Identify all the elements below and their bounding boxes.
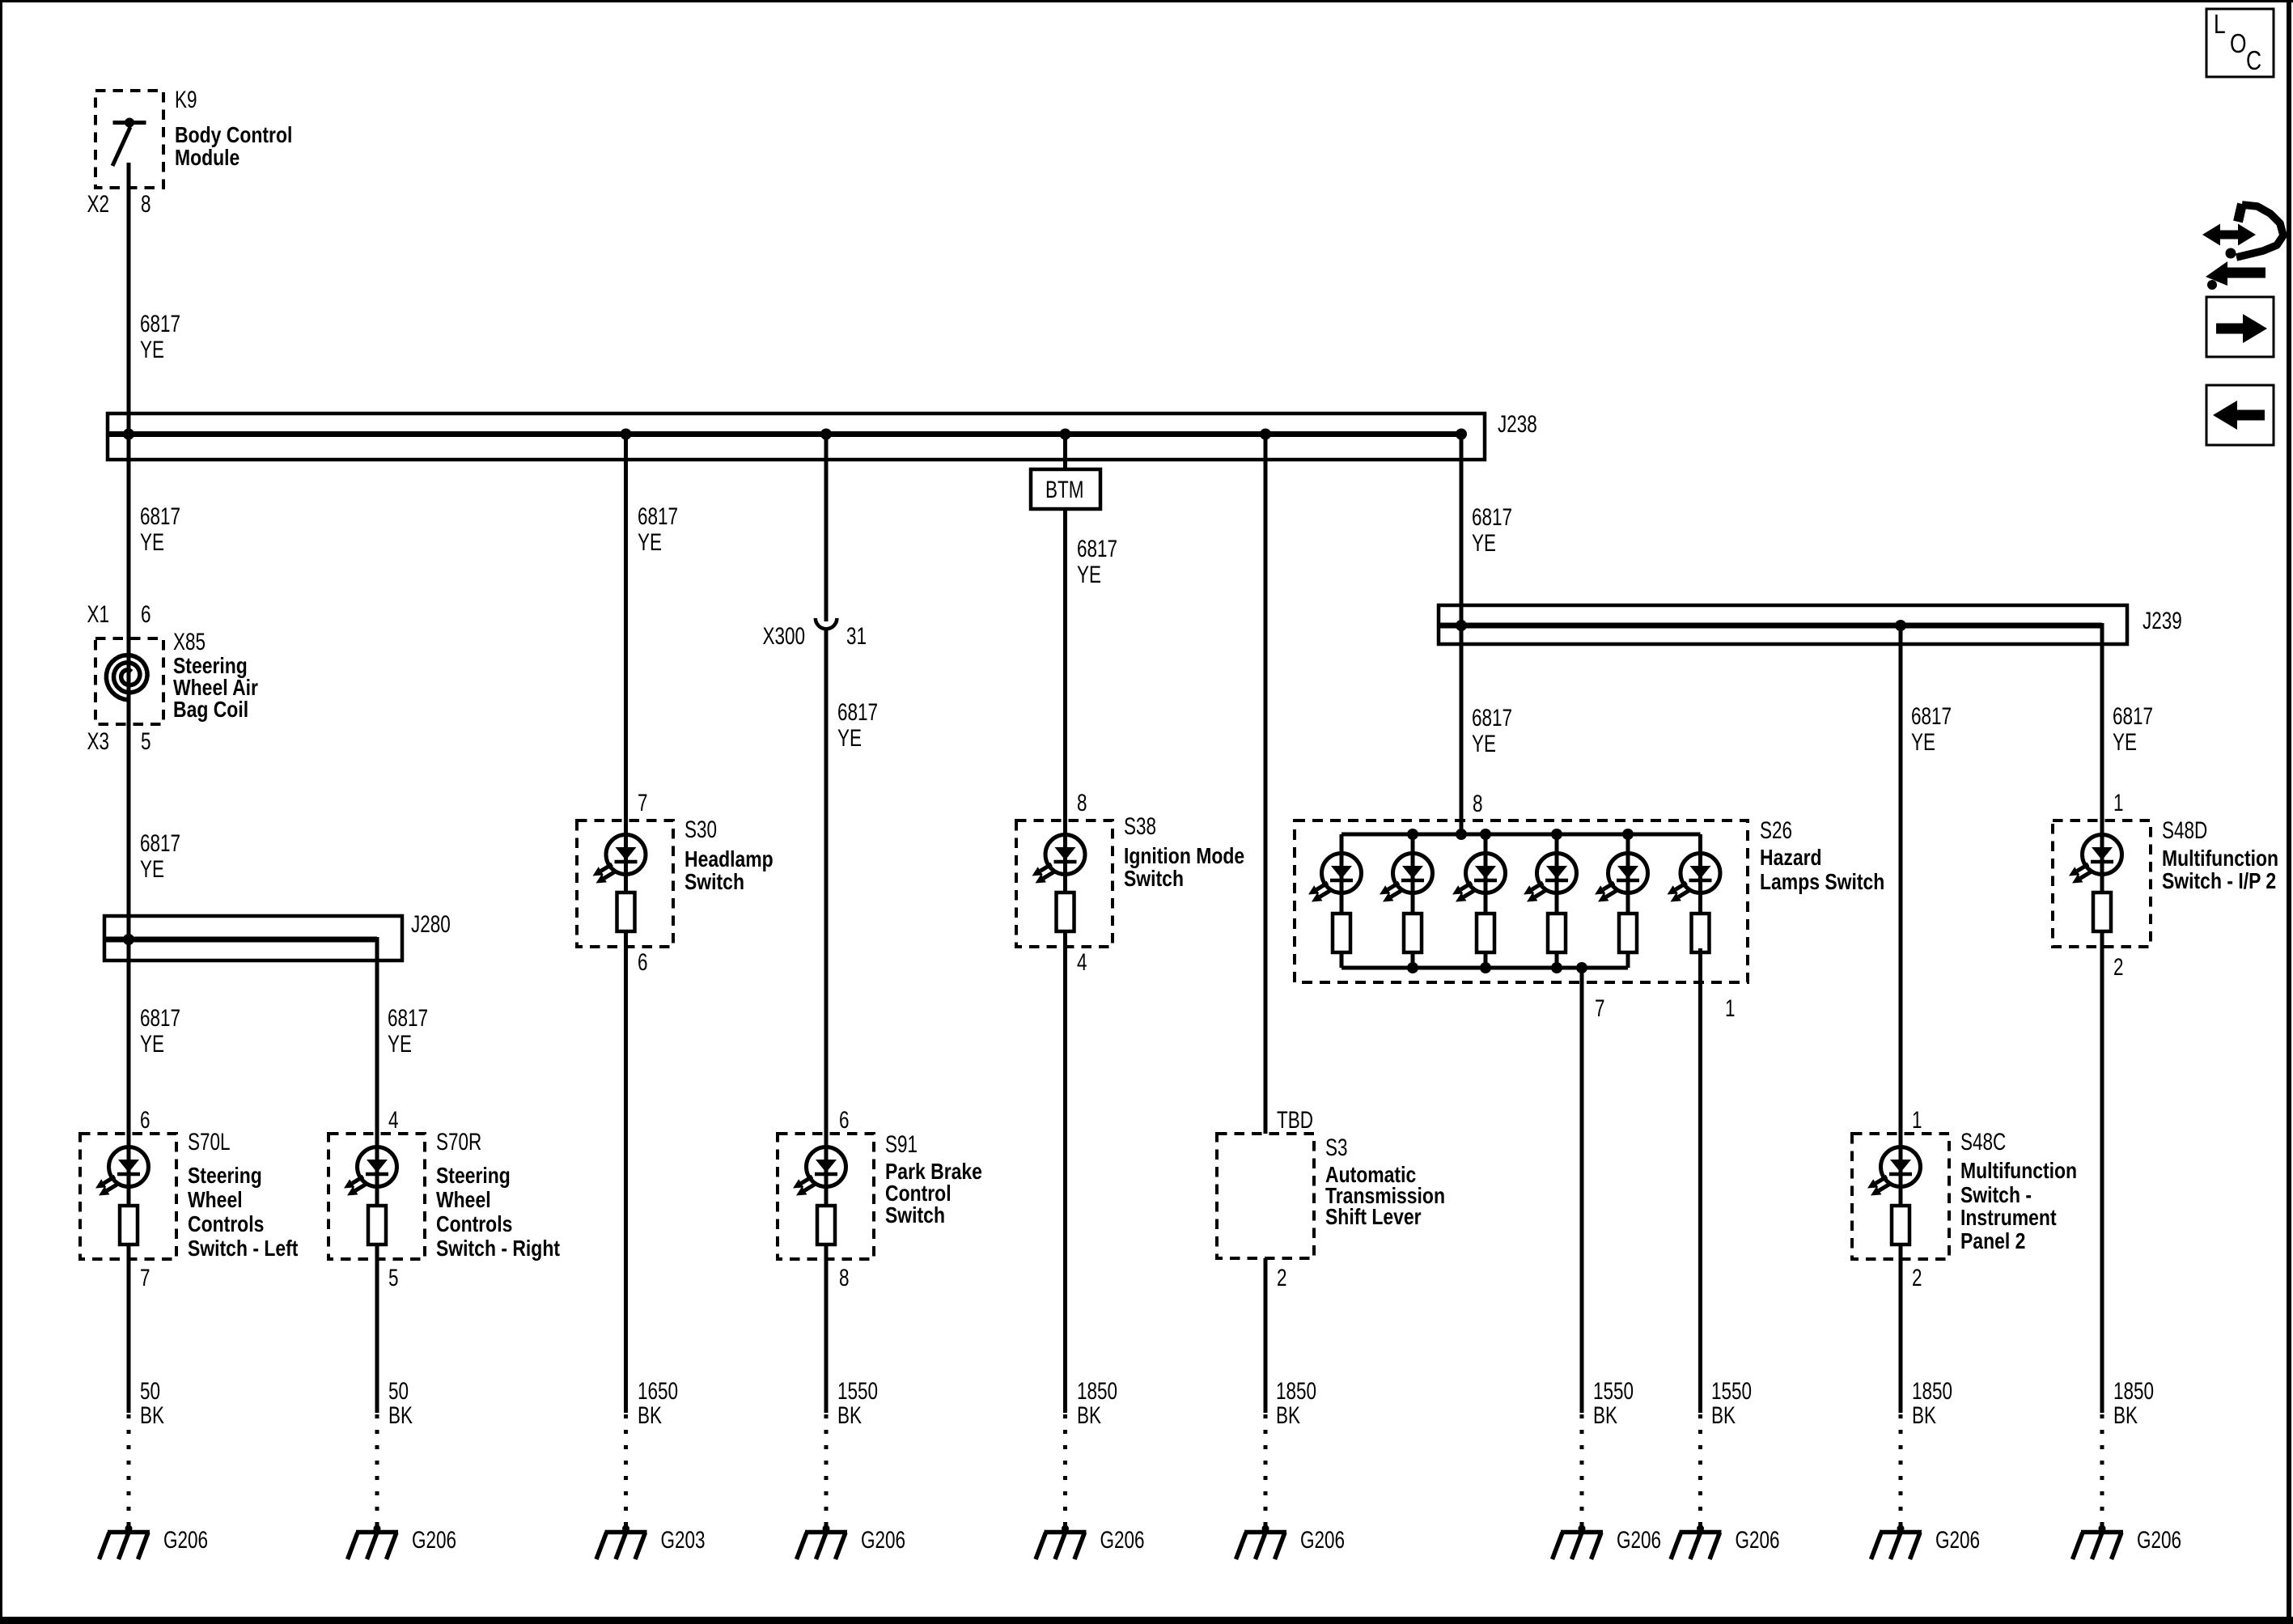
wire label 6817 YE (below X85) bbox=[140, 829, 180, 883]
switch S38 Ignition Mode Switch bbox=[1016, 820, 1113, 947]
svg-text:6817: 6817 bbox=[1911, 702, 1952, 730]
label S48D bbox=[2162, 816, 2278, 894]
svg-text:G206: G206 bbox=[412, 1526, 456, 1554]
ground G203 bbox=[596, 1525, 706, 1560]
pins 4 / 5 bbox=[388, 1106, 399, 1291]
svg-text:Multifunction: Multifunction bbox=[2162, 846, 2278, 871]
svg-text:Controls: Controls bbox=[436, 1212, 512, 1237]
svg-text:J239: J239 bbox=[2143, 607, 2182, 634]
svg-text:G206: G206 bbox=[1617, 1526, 1661, 1554]
svg-text:G206: G206 bbox=[861, 1526, 905, 1554]
svg-text:Instrument: Instrument bbox=[1960, 1206, 2057, 1231]
dotted ground wire bbox=[1698, 1414, 1702, 1529]
wire below S3 bbox=[1264, 1258, 1268, 1413]
dotted ground wire bbox=[1580, 1414, 1584, 1529]
dotted ground wire bbox=[2100, 1414, 2104, 1529]
wire label 50 BK bbox=[388, 1377, 413, 1429]
svg-text:G203: G203 bbox=[661, 1526, 706, 1554]
svg-text:YE: YE bbox=[1472, 730, 1496, 757]
svg-text:BK: BK bbox=[1077, 1401, 1101, 1429]
svg-text:5: 5 bbox=[141, 727, 151, 755]
dotted ground wire bbox=[824, 1414, 829, 1529]
component S3 Automatic Transmission Shift Lever bbox=[1217, 1134, 1314, 1258]
svg-text:1850: 1850 bbox=[1912, 1377, 1952, 1405]
svg-text:TBD: TBD bbox=[1277, 1106, 1313, 1134]
wire label 1550 BK bbox=[837, 1377, 878, 1429]
svg-text:8: 8 bbox=[141, 190, 151, 218]
svg-text:BK: BK bbox=[388, 1401, 413, 1429]
label S26 bbox=[1760, 816, 1884, 895]
svg-text:Ignition Mode: Ignition Mode bbox=[1124, 844, 1244, 869]
svg-text:BTM: BTM bbox=[1045, 476, 1083, 503]
dotted ground wire bbox=[1063, 1414, 1067, 1529]
label S3 bbox=[1325, 1134, 1445, 1230]
svg-text:1850: 1850 bbox=[1077, 1377, 1117, 1405]
svg-text:C: C bbox=[2246, 46, 2261, 75]
dotted ground wire bbox=[375, 1414, 379, 1529]
splice pack J238 bbox=[108, 413, 1485, 460]
svg-text:7: 7 bbox=[638, 789, 648, 816]
pins 8 / 4 bbox=[1077, 789, 1087, 976]
svg-text:X300: X300 bbox=[762, 622, 805, 650]
right arrow box bbox=[2206, 297, 2274, 357]
svg-text:YE: YE bbox=[1077, 561, 1101, 588]
svg-text:Controls: Controls bbox=[188, 1212, 264, 1237]
wire label 6817 YE (below J238) bbox=[140, 502, 180, 556]
svg-text:S3: S3 bbox=[1325, 1134, 1348, 1161]
switch S26 Hazard Lamps Switch bbox=[1295, 820, 1748, 982]
ground G206 (S91) bbox=[797, 1525, 906, 1560]
wire label 6817 YE (above J238) bbox=[140, 310, 180, 363]
svg-text:BK: BK bbox=[837, 1401, 862, 1429]
svg-text:Wheel: Wheel bbox=[436, 1188, 491, 1213]
svg-text:6817: 6817 bbox=[2113, 702, 2153, 730]
svg-text:2: 2 bbox=[2113, 953, 2124, 981]
junction dots on J238 bbox=[123, 429, 1467, 440]
label J238 bbox=[1498, 410, 1537, 438]
svg-text:6: 6 bbox=[638, 948, 648, 976]
pins 6 / 8 bbox=[839, 1106, 850, 1291]
svg-text:Switch: Switch bbox=[1124, 867, 1184, 892]
svg-text:YE: YE bbox=[2113, 728, 2137, 756]
svg-text:Steering: Steering bbox=[436, 1164, 511, 1189]
svg-text:7: 7 bbox=[1595, 994, 1605, 1022]
wire 6817 YE from J238 to S3 bbox=[1264, 435, 1268, 1134]
svg-text:7: 7 bbox=[140, 1264, 150, 1291]
svg-text:6817: 6817 bbox=[140, 310, 180, 337]
wire label 6817 YE (below J280 right) bbox=[388, 1004, 428, 1058]
svg-text:S38: S38 bbox=[1124, 812, 1156, 840]
svg-text:6817: 6817 bbox=[638, 502, 678, 530]
svg-text:X1: X1 bbox=[87, 600, 109, 628]
switch S48C Multifunction Switch - Instrument Panel 2 bbox=[1852, 1134, 1949, 1259]
dotted ground wire bbox=[1264, 1414, 1268, 1529]
svg-text:Switch: Switch bbox=[685, 870, 744, 895]
junction dots on J239 bbox=[1456, 620, 1906, 631]
label S70L bbox=[188, 1128, 299, 1261]
svg-text:5: 5 bbox=[388, 1264, 399, 1291]
svg-text:1: 1 bbox=[1912, 1106, 1922, 1134]
splice pack J239 bbox=[1439, 605, 2127, 644]
pins X1 6 / X3 5 bbox=[87, 600, 150, 755]
svg-text:4: 4 bbox=[388, 1106, 399, 1134]
ground G206 (S26 pin7) bbox=[1553, 1525, 1662, 1560]
svg-text:1550: 1550 bbox=[1593, 1377, 1634, 1405]
svg-text:X3: X3 bbox=[87, 727, 109, 755]
svg-text:Steering: Steering bbox=[188, 1164, 262, 1189]
svg-text:YE: YE bbox=[1472, 529, 1496, 557]
wire label 6817 YE (S48C drop) bbox=[1911, 702, 1952, 756]
wire 6817 YE from J239 right end to S48D bbox=[2100, 623, 2104, 1413]
svg-text:6817: 6817 bbox=[1472, 704, 1512, 731]
connector X85 Steering Wheel Air Bag Coil bbox=[95, 638, 163, 724]
svg-text:1550: 1550 bbox=[1711, 1377, 1752, 1405]
svg-text:G206: G206 bbox=[1935, 1526, 1980, 1554]
svg-text:Switch - Left: Switch - Left bbox=[188, 1236, 299, 1261]
switch S70R Steering Wheel Controls Switch - Right bbox=[328, 1134, 425, 1259]
svg-text:6817: 6817 bbox=[140, 502, 180, 530]
LOC box bbox=[2206, 9, 2274, 77]
wire 6817 YE from J238 to X300 bbox=[824, 435, 829, 622]
svg-text:Headlamp: Headlamp bbox=[685, 847, 774, 872]
routing squiggle icon bbox=[2202, 204, 2283, 290]
svg-text:Shift Lever: Shift Lever bbox=[1325, 1205, 1422, 1230]
wire label 50 BK bbox=[140, 1377, 164, 1429]
svg-text:Lamps Switch: Lamps Switch bbox=[1760, 870, 1884, 895]
svg-text:BK: BK bbox=[1593, 1401, 1617, 1429]
svg-text:Multifunction: Multifunction bbox=[1960, 1159, 2077, 1184]
labels X300 31 bbox=[762, 622, 867, 650]
pins 6 / 7 bbox=[140, 1106, 150, 1291]
ground G206 (S48C) bbox=[1871, 1525, 1981, 1560]
wire label 1650 BK bbox=[638, 1377, 678, 1429]
wire label 1850 BK bbox=[2113, 1377, 2154, 1429]
svg-text:1850: 1850 bbox=[1276, 1377, 1316, 1405]
dotted ground wire bbox=[1899, 1414, 1903, 1529]
svg-text:O: O bbox=[2230, 29, 2247, 58]
svg-text:G206: G206 bbox=[1300, 1526, 1345, 1554]
svg-text:S48D: S48D bbox=[2162, 816, 2207, 844]
svg-text:S26: S26 bbox=[1760, 816, 1792, 844]
svg-text:2: 2 bbox=[1277, 1264, 1287, 1291]
svg-text:8: 8 bbox=[839, 1264, 850, 1291]
splice pack J280 bbox=[104, 916, 402, 960]
ground G206 (S48D) bbox=[2073, 1525, 2182, 1560]
wire label 1850 BK bbox=[1276, 1377, 1316, 1429]
dotted ground wire bbox=[624, 1414, 628, 1529]
label S91 bbox=[885, 1130, 982, 1228]
label X85 bbox=[173, 628, 258, 723]
label S38 bbox=[1124, 812, 1244, 892]
svg-text:Module: Module bbox=[175, 146, 239, 171]
svg-text:YE: YE bbox=[140, 336, 164, 363]
svg-text:G206: G206 bbox=[1736, 1526, 1780, 1554]
pin 8 (S26) bbox=[1473, 790, 1483, 817]
svg-text:6: 6 bbox=[141, 600, 151, 628]
svg-text:31: 31 bbox=[846, 622, 867, 650]
svg-text:BK: BK bbox=[140, 1401, 164, 1429]
svg-text:Bag Coil: Bag Coil bbox=[173, 698, 248, 723]
wire label 1550 BK bbox=[1593, 1377, 1634, 1429]
svg-text:Switch: Switch bbox=[885, 1203, 945, 1228]
wire label 6817 YE (below BTM) bbox=[1077, 535, 1117, 588]
wire label 6817 YE (below J239 at S26 drop) bbox=[1472, 704, 1512, 757]
label S30 bbox=[685, 816, 774, 895]
label J239 bbox=[2143, 607, 2182, 634]
svg-text:K9: K9 bbox=[175, 86, 197, 113]
svg-text:BK: BK bbox=[638, 1401, 662, 1429]
wire label 6817 YE (below X300) bbox=[837, 698, 878, 752]
svg-text:YE: YE bbox=[140, 855, 164, 883]
pins 1 / 2 bbox=[2113, 789, 2124, 981]
wire 6817 YE from J238 to S30 bbox=[624, 435, 628, 1414]
svg-text:2: 2 bbox=[1912, 1264, 1922, 1291]
svg-text:S70L: S70L bbox=[188, 1128, 231, 1155]
wire label 1550 BK bbox=[1711, 1377, 1752, 1429]
svg-text:J280: J280 bbox=[411, 910, 451, 938]
svg-text:6817: 6817 bbox=[1077, 535, 1117, 562]
svg-text:BK: BK bbox=[2113, 1401, 2138, 1429]
svg-text:YE: YE bbox=[638, 528, 662, 556]
svg-text:BK: BK bbox=[1711, 1401, 1736, 1429]
svg-text:8: 8 bbox=[1077, 789, 1087, 816]
svg-text:Hazard: Hazard bbox=[1760, 846, 1822, 871]
pins 7 / 1 bbox=[1595, 994, 1736, 1022]
svg-text:6: 6 bbox=[140, 1106, 150, 1134]
switch S91 Park Brake Control Switch bbox=[778, 1134, 874, 1259]
svg-text:Body Control: Body Control bbox=[175, 123, 292, 148]
svg-text:1650: 1650 bbox=[638, 1377, 678, 1405]
wire 1550 BK from S26 pin 7 bbox=[1580, 968, 1584, 1413]
svg-text:Switch - I/P 2: Switch - I/P 2 bbox=[2162, 869, 2276, 894]
svg-text:G206: G206 bbox=[2137, 1526, 2181, 1554]
svg-text:J238: J238 bbox=[1498, 410, 1537, 438]
svg-text:6817: 6817 bbox=[1472, 503, 1512, 531]
wire label 6817 YE (above J239) bbox=[1472, 503, 1512, 557]
svg-text:8: 8 bbox=[1473, 790, 1483, 817]
wire 6817 YE from J239 to S48C bbox=[1899, 625, 1903, 1413]
pin X2 8 bbox=[87, 190, 150, 218]
svg-text:YE: YE bbox=[837, 724, 862, 752]
wire label 6817 YE (S30 drop) bbox=[638, 502, 678, 556]
wire label 6817 YE (below J280 left) bbox=[140, 1004, 180, 1058]
svg-text:6817: 6817 bbox=[140, 1004, 180, 1032]
wire 1550 BK from S26 pin 1 bbox=[1698, 948, 1702, 1413]
svg-text:6817: 6817 bbox=[837, 698, 878, 726]
svg-text:YE: YE bbox=[140, 528, 164, 556]
svg-text:50: 50 bbox=[388, 1377, 409, 1405]
svg-text:6817: 6817 bbox=[140, 829, 180, 857]
connector X300 pin 31 bbox=[816, 618, 837, 629]
svg-text:BK: BK bbox=[1276, 1401, 1300, 1429]
wire 6817 YE from X300 to S91 bbox=[824, 629, 829, 1413]
svg-text:S70R: S70R bbox=[436, 1128, 481, 1155]
svg-text:Panel 2: Panel 2 bbox=[1960, 1229, 2025, 1254]
svg-text:BK: BK bbox=[1912, 1401, 1936, 1429]
svg-text:G206: G206 bbox=[1100, 1526, 1145, 1554]
junction dot on J280 bbox=[123, 934, 134, 945]
label J280 bbox=[411, 910, 451, 938]
svg-text:YE: YE bbox=[388, 1030, 412, 1058]
svg-text:1550: 1550 bbox=[837, 1377, 878, 1405]
svg-text:50: 50 bbox=[140, 1377, 160, 1405]
svg-text:YE: YE bbox=[1911, 728, 1935, 756]
left arrow box bbox=[2206, 385, 2274, 445]
svg-text:S30: S30 bbox=[685, 816, 717, 843]
svg-text:Wheel: Wheel bbox=[188, 1188, 243, 1213]
svg-text:4: 4 bbox=[1077, 948, 1087, 976]
svg-text:6: 6 bbox=[839, 1106, 850, 1134]
wire label 1850 BK bbox=[1912, 1377, 1952, 1429]
svg-text:Switch - Right: Switch - Right bbox=[436, 1236, 560, 1261]
ground G206 (S3) bbox=[1236, 1525, 1346, 1560]
label S48C bbox=[1960, 1128, 2077, 1254]
wire 6817 YE from K9 to S70L bbox=[127, 163, 131, 1413]
ground G206 (S26 pin1) bbox=[1671, 1525, 1780, 1560]
pins 7 / 6 bbox=[638, 789, 648, 976]
wire label 6817 YE (S48D drop) bbox=[2113, 702, 2153, 756]
pins 1 / 2 bbox=[1912, 1106, 1922, 1291]
svg-text:S48C: S48C bbox=[1960, 1128, 2006, 1155]
ground G206 (S70L) bbox=[100, 1525, 209, 1560]
svg-text:1: 1 bbox=[1725, 994, 1736, 1022]
ground G206 (S38) bbox=[1036, 1525, 1145, 1560]
pins TBD / 2 bbox=[1277, 1106, 1313, 1291]
tag BTM bbox=[1031, 469, 1100, 509]
label S70R bbox=[436, 1128, 560, 1261]
label K9 bbox=[175, 86, 292, 171]
svg-text:YE: YE bbox=[140, 1030, 164, 1058]
switch S48D Multifunction Switch - I/P 2 bbox=[2053, 820, 2151, 947]
svg-text:6817: 6817 bbox=[388, 1004, 428, 1032]
svg-text:1850: 1850 bbox=[2113, 1377, 2154, 1405]
svg-text:1: 1 bbox=[2113, 789, 2124, 816]
wire 6817 YE from J238 right end through J239 to S26 bbox=[1460, 435, 1464, 835]
module K9 Body Control Module bbox=[95, 91, 163, 188]
wire 6817 YE from J280 to S70R bbox=[375, 937, 379, 1413]
dotted ground wire bbox=[127, 1414, 131, 1529]
ground G206 (S70R) bbox=[348, 1525, 457, 1560]
svg-text:X2: X2 bbox=[87, 190, 109, 218]
svg-text:X85: X85 bbox=[173, 628, 206, 655]
svg-text:Switch -: Switch - bbox=[1960, 1183, 2032, 1208]
svg-text:S91: S91 bbox=[885, 1130, 918, 1158]
wire label 1850 BK bbox=[1077, 1377, 1117, 1429]
svg-text:G206: G206 bbox=[163, 1526, 208, 1554]
svg-text:L: L bbox=[2214, 10, 2226, 39]
switch S30 Headlamp Switch bbox=[577, 820, 673, 947]
switch S70L Steering Wheel Controls Switch - Left bbox=[80, 1134, 176, 1259]
wire 6817 YE from J238 to S38 bbox=[1063, 435, 1067, 1414]
